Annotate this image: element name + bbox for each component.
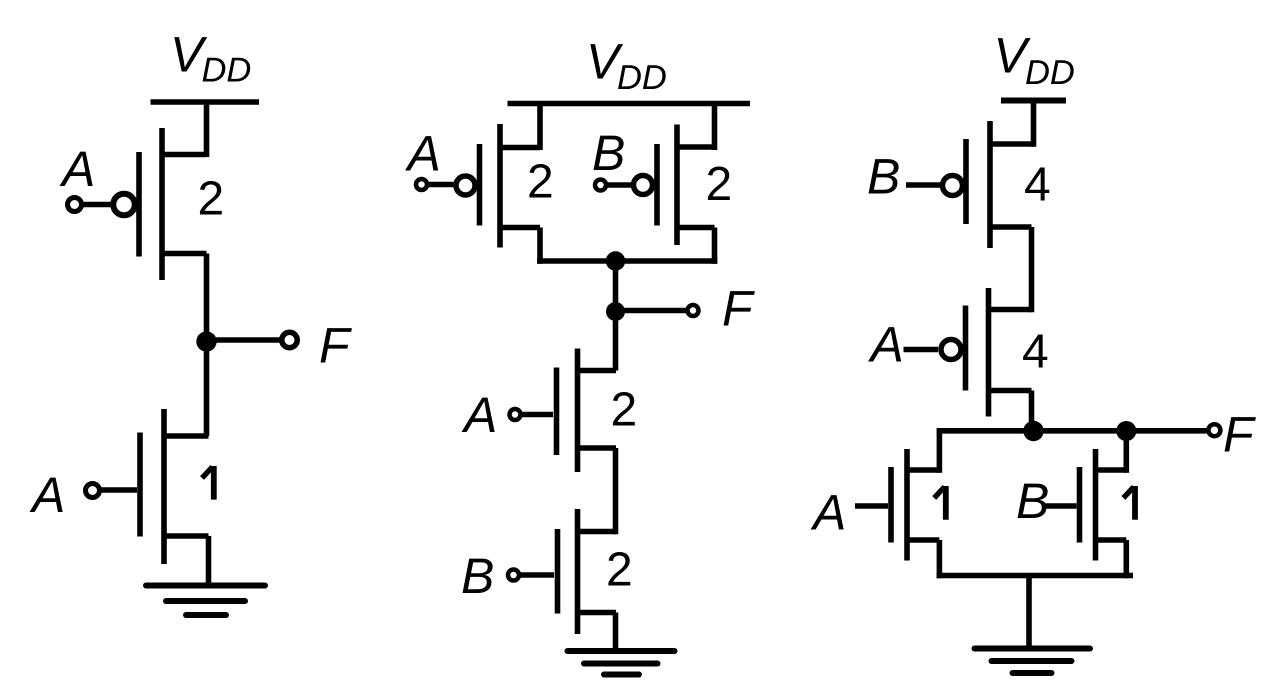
transistor M10 NMOS (gate B, size 1) bbox=[1080, 449, 1127, 561]
wire output bar to M10 drain bbox=[1124, 431, 1130, 473]
wire pull-up output bar (circuit 2) bbox=[537, 258, 717, 264]
svg-text:DD: DD bbox=[202, 52, 252, 90]
transistor M3 PMOS (gate A, size 2) bbox=[456, 124, 540, 248]
wire M4 drain to output bar bbox=[712, 228, 718, 264]
value 1 (M9 width) bbox=[934, 486, 946, 520]
svg-text:2: 2 bbox=[706, 158, 733, 211]
terminal input A (circuit 1 top) bbox=[68, 198, 82, 212]
node junction on output bar bbox=[606, 251, 625, 270]
wire M5 source to M6 drain bbox=[613, 448, 619, 534]
wire input A to M9 gate bbox=[855, 503, 888, 509]
transistor M1 PMOS (gate A, size 2) bbox=[113, 128, 206, 280]
terminal input A (circuit 2) bbox=[416, 179, 427, 190]
terminal F (circuit 3) bbox=[1208, 424, 1220, 436]
power VDD rail bar (circuit 3) bbox=[1001, 98, 1066, 104]
wire input B to M4 gate bubble bbox=[605, 182, 631, 188]
node junction M10 drain bbox=[1116, 421, 1136, 441]
wire input A to M1 gate bubble bbox=[83, 202, 111, 208]
svg-text:2: 2 bbox=[198, 173, 225, 226]
svg-text:2: 2 bbox=[527, 156, 554, 209]
wire VDD to M7 source bbox=[1031, 101, 1037, 147]
svg-text:2: 2 bbox=[606, 544, 633, 597]
svg-text:F: F bbox=[319, 318, 352, 374]
wire VDD to M1 source bbox=[204, 102, 210, 157]
power VDD rail bar (circuit 2) bbox=[508, 101, 751, 107]
wire M9 source down bbox=[937, 540, 943, 578]
wire output bar to M9 drain bbox=[937, 431, 943, 473]
svg-text:2: 2 bbox=[611, 384, 638, 437]
svg-text:A: A bbox=[461, 387, 497, 443]
svg-text:F: F bbox=[722, 281, 755, 337]
svg-text:A: A bbox=[405, 126, 441, 182]
svg-text:DD: DD bbox=[1025, 54, 1075, 92]
svg-text:A: A bbox=[59, 141, 95, 197]
svg-text:F: F bbox=[1223, 407, 1256, 463]
wire M8 drain to output bar bbox=[1029, 391, 1035, 434]
wire input B to M10 gate bbox=[1043, 503, 1077, 509]
terminal input A (circuit 2 nmos) bbox=[510, 409, 521, 420]
wire to F terminal (circuit 2) bbox=[616, 308, 688, 314]
wire input A to M3 gate bubble bbox=[427, 182, 454, 188]
node junction pull-up drain bbox=[1023, 421, 1043, 441]
wire input B to M7 gate bubble bbox=[906, 182, 940, 188]
wire input B to M6 gate bbox=[520, 572, 555, 578]
wire source bar to ground bbox=[1026, 576, 1032, 652]
node F junction (circuit 2) bbox=[606, 302, 625, 321]
svg-text:B: B bbox=[1016, 473, 1049, 529]
value 1 (M10 width) bbox=[1123, 486, 1135, 520]
net VDD label (circuit 2) bbox=[586, 34, 667, 98]
svg-text:A: A bbox=[810, 485, 846, 541]
wire input A to M5 gate bbox=[521, 412, 553, 418]
wire M2 source to ground bbox=[206, 536, 212, 586]
ground (circuit 2) bbox=[568, 651, 675, 675]
wire pull-down source bar (circuit 3) bbox=[937, 573, 1133, 579]
terminal input B (circuit 2 nmos) bbox=[508, 570, 519, 581]
svg-text:A: A bbox=[868, 317, 904, 373]
transistor M8 PMOS (gate A, size 4) bbox=[941, 288, 1032, 417]
wire input A to M8 gate bubble bbox=[904, 347, 939, 353]
wire output bar down to M5 drain bbox=[613, 261, 619, 371]
transistor M2 NMOS (gate A, size 1) bbox=[140, 409, 209, 564]
ground (circuit 1) bbox=[146, 586, 265, 616]
wire M10 source down bbox=[1124, 540, 1130, 578]
transistor M4 PMOS (gate B, size 2) bbox=[634, 125, 715, 246]
wire M1 drain to M2 drain (output net) bbox=[204, 254, 210, 437]
wire pull-down output bar to F (circuit 3) bbox=[937, 428, 1207, 434]
transistor M6 NMOS (gate B, size 2) bbox=[558, 509, 617, 634]
terminal F (circuit 2) bbox=[688, 305, 699, 316]
terminal input B (circuit 2) bbox=[595, 180, 606, 191]
svg-text:A: A bbox=[29, 467, 65, 523]
terminal F (circuit 1) bbox=[282, 332, 298, 348]
svg-text:4: 4 bbox=[1022, 326, 1049, 379]
transistor M5 NMOS (gate A, size 2) bbox=[557, 349, 617, 473]
wire M3 drain to output bar bbox=[537, 228, 543, 264]
net VDD label (circuit 3) bbox=[994, 28, 1075, 93]
svg-text:4: 4 bbox=[1024, 159, 1051, 212]
wire VDD to M3 source bbox=[537, 104, 543, 151]
svg-text:B: B bbox=[867, 149, 900, 205]
wire M7 drain to M8 source bbox=[1029, 227, 1035, 312]
net VDD label (circuit 1) bbox=[170, 27, 251, 90]
terminal input A (circuit 1 bottom) bbox=[86, 484, 100, 498]
wire M6 source to ground bbox=[613, 613, 619, 652]
svg-text:DD: DD bbox=[617, 59, 667, 97]
power VDD rail bar (circuit 1) bbox=[151, 99, 260, 105]
wire VDD to M4 source bbox=[712, 104, 718, 151]
wire output to F terminal bbox=[207, 337, 282, 343]
ground (circuit 3) bbox=[975, 649, 1091, 674]
value 1 (M2 width) bbox=[202, 466, 214, 500]
transistor M7 PMOS (gate B, size 4) bbox=[943, 121, 1034, 248]
svg-text:B: B bbox=[461, 548, 494, 604]
transistor M9 NMOS (gate A, size 1) bbox=[891, 449, 939, 561]
wire input A to M2 gate bbox=[102, 487, 138, 493]
node output junction (circuit 1) bbox=[196, 331, 216, 351]
svg-text:B: B bbox=[592, 125, 625, 181]
